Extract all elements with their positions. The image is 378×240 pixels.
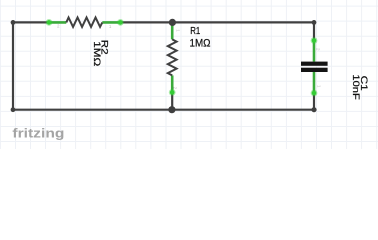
svg-text:1MΩ: 1MΩ bbox=[190, 38, 211, 50]
svg-text:1MΩ: 1MΩ bbox=[91, 41, 102, 66]
svg-text:10nF: 10nF bbox=[350, 74, 361, 100]
svg-text:fritzing: fritzing bbox=[12, 126, 64, 141]
svg-text:1: 1 bbox=[109, 24, 112, 29]
svg-text:2: 2 bbox=[57, 24, 60, 29]
svg-text:R1: R1 bbox=[190, 26, 200, 37]
svg-text:1: 1 bbox=[316, 85, 321, 88]
svg-text:1: 1 bbox=[175, 29, 180, 32]
